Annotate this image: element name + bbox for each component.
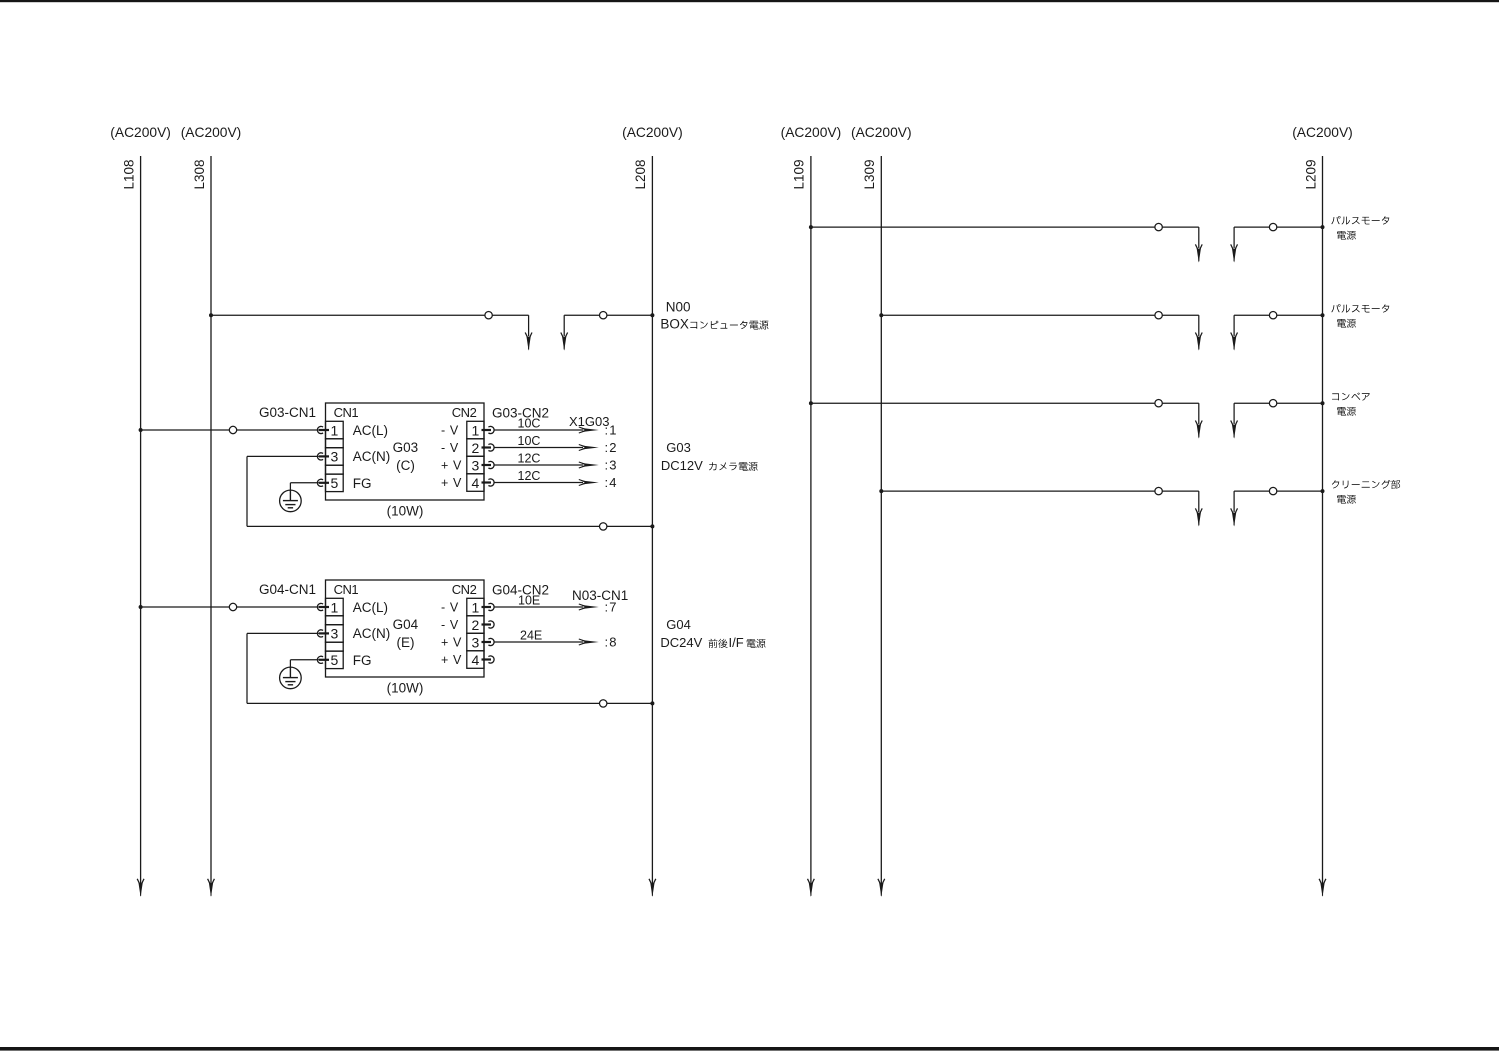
connector terminal circle [600,312,607,319]
svg-text:CN1: CN1 [334,405,359,420]
svg-text:G04: G04 [666,617,691,632]
pin 1 of G04-CN2 [441,599,494,615]
connector G04-CN1 pin column [326,598,344,668]
label G03-CN1 [259,405,316,420]
svg-text::2: :2 [605,440,618,455]
svg-text:L308: L308 [192,159,207,189]
svg-text:CN1: CN1 [334,582,359,597]
svg-text:2: 2 [472,440,480,456]
power rail L108 (AC200V) [110,125,171,897]
wire N00 BOX row (L308 to L208) [209,312,654,351]
svg-text:1: 1 [472,422,480,438]
junction dot on right rail [1321,401,1325,405]
node junction on L208 at G03 [650,524,654,528]
net label パルスモータ電源 [1331,304,1389,328]
wire パルスモータ row (L109 to L209) [809,223,1325,262]
wire drop with arrow (cable continues) [1198,315,1200,336]
svg-text:N00: N00 [666,299,691,314]
pin 3 of G03-CN2 [441,457,494,473]
net label クリーニング部電源 [1332,480,1400,504]
wire segment right [564,314,652,316]
power supply unit G04 body [326,580,485,696]
ground protective-earth symbol at G04 [280,660,319,689]
connector terminal circle [1269,223,1276,230]
connector terminal circle [1269,312,1276,319]
svg-text:(AC200V): (AC200V) [1292,125,1353,140]
pin 3 of G04-CN1 [317,626,338,642]
svg-text:(AC200V): (AC200V) [110,125,171,140]
wire segment right [1234,226,1322,228]
svg-text:FG: FG [353,476,372,491]
svg-text::4: :4 [605,475,618,490]
svg-text:1: 1 [331,599,339,615]
svg-text:N03-CN1: N03-CN1 [572,588,628,603]
svg-text:+ V: + V [441,653,462,667]
connector G03-CN2 pin column [467,421,484,491]
svg-text:(10W): (10W) [387,504,424,519]
wire drop with arrow (cable continues) [563,315,565,336]
pin 2 of G03-CN2 [441,440,494,456]
border frame bottom bar [0,1047,1499,1051]
wire G04-CN2 pin3 output 24E [494,629,618,650]
svg-text:AC(L): AC(L) [353,423,388,438]
connector terminal circle [1269,400,1276,407]
power rail L308 (AC200V) [181,125,242,897]
svg-text:3: 3 [331,626,339,642]
wire drop with arrow (cable continues) [1233,491,1235,512]
svg-text:FG: FG [353,653,372,668]
svg-text:BOX: BOX [660,317,689,332]
svg-text:L208: L208 [633,159,648,189]
pin 1 of G04-CN1 [317,599,338,615]
wire segment right [1234,490,1322,492]
wire drop with arrow (cable continues) [1198,403,1200,424]
svg-text:I/F: I/F [729,635,744,650]
wire drop with arrow (cable continues) [1198,491,1200,512]
svg-text:CN2: CN2 [452,405,477,420]
connector terminal circle [1155,223,1162,230]
wire クリーニング部 row (L309 to L209) [879,487,1324,526]
svg-text:1: 1 [472,599,480,615]
label G03-CN2 [492,406,549,421]
connector terminal circle [1155,487,1162,494]
svg-text:X1G03: X1G03 [569,414,609,429]
svg-text:(AC200V): (AC200V) [851,125,912,140]
svg-text:AC(N): AC(N) [353,626,391,641]
svg-text:5: 5 [331,652,339,668]
wire segment left [811,226,1199,228]
wire G03 pin1 to L108 [141,426,319,433]
svg-text:AC(L): AC(L) [353,600,388,615]
svg-text:(C): (C) [396,458,415,473]
node junction on L108 at G03 [139,428,143,432]
svg-text:- V: - V [441,601,459,615]
svg-text:(AC200V): (AC200V) [622,125,683,140]
junction dot on right rail [650,313,654,317]
svg-text:CN2: CN2 [452,582,477,597]
pin 1 of G03-CN1 [317,422,338,438]
connector G03-CN1 pin column [326,421,344,491]
wire segment left [881,490,1199,492]
junction dot on left rail [809,225,813,229]
svg-text:3: 3 [331,449,339,465]
svg-text:10E: 10E [518,594,540,608]
svg-text:G04: G04 [393,617,419,632]
pin 1 of G03-CN2 [441,422,494,438]
power rail L109 (AC200V) [781,125,842,897]
wire G04 pin3 to L208 (AC neutral loop) [247,633,652,707]
connector terminal circle [1269,487,1276,494]
wire drop with arrow (cable continues) [1233,403,1235,424]
svg-text::3: :3 [605,457,618,472]
wire G04-CN2 pin1 output 10E [494,594,618,615]
svg-text:(E): (E) [397,635,415,650]
wire drop with arrow (cable continues) [1198,227,1200,248]
net label BOXコンピュータ電源 [660,317,768,332]
svg-text:DC12V: DC12V [661,458,703,473]
svg-text:+ V: + V [441,476,462,490]
svg-text:- V: - V [441,424,459,438]
node junction on L208 at G04 [650,701,654,705]
connector terminal circle [485,312,492,319]
wire segment left [211,314,529,316]
svg-text:G03-CN1: G03-CN1 [259,405,316,420]
svg-text:12C: 12C [518,452,541,466]
junction dot on right rail [1321,225,1325,229]
svg-text:DC24V: DC24V [660,635,702,650]
wire G03-CN2 pin1 output 10C [494,417,618,438]
svg-text:5: 5 [331,475,339,491]
svg-text:- V: - V [441,618,459,632]
svg-text:12C: 12C [518,469,541,483]
svg-text:L209: L209 [1303,159,1318,189]
junction dot on left rail [879,313,883,317]
wire segment left [811,402,1199,404]
svg-text:1: 1 [331,422,339,438]
wire G03-CN2 pin4 output 12C [494,469,618,490]
svg-text:(10W): (10W) [387,681,424,696]
connector G04-CN2 pin column [467,598,484,668]
svg-text:(AC200V): (AC200V) [781,125,842,140]
pin 3 of G04-CN2 [441,634,494,650]
svg-text:3: 3 [472,457,480,473]
wire segment right [1234,402,1322,404]
svg-text:(AC200V): (AC200V) [181,125,242,140]
power rail L309 (AC200V) [851,125,912,897]
power rail L209 (AC200V) [1292,125,1353,897]
svg-text:- V: - V [441,441,459,455]
net label コンベア電源 [1332,392,1370,415]
label G03 DC12V カメラ電源 [661,440,758,473]
wire drop with arrow (cable continues) [1233,315,1235,336]
node N00 label [666,299,691,314]
power supply unit G03 body [326,403,485,519]
ground protective-earth symbol at G03 [280,483,319,512]
wire segment left [881,314,1199,316]
wire drop with arrow (cable continues) [528,315,530,336]
junction dot on left rail [879,489,883,493]
svg-text:4: 4 [472,652,480,668]
junction dot on left rail [209,313,213,317]
connector terminal circle [1155,312,1162,319]
node junction on L108 at G04 [139,605,143,609]
svg-text:4: 4 [472,475,480,491]
wire segment right [1234,314,1322,316]
wire G03-CN2 pin2 output 10C [494,434,618,455]
label G04-CN1 [259,582,316,597]
pin 5 of G04-CN1 [317,652,338,668]
svg-text:G04-CN1: G04-CN1 [259,582,316,597]
svg-text:3: 3 [472,634,480,650]
wire G03-CN2 pin3 output 12C [494,452,618,473]
svg-text:24E: 24E [520,629,542,643]
label G04 DC24V 前後I/F電源 [660,617,765,650]
pin 5 of G03-CN1 [317,475,338,491]
pin 4 of G04-CN2 [441,652,494,668]
connector terminal circle [1155,400,1162,407]
svg-text:2: 2 [472,617,480,633]
svg-text:G03: G03 [393,440,419,455]
wire コンベア row (L109 to L209) [809,400,1325,439]
border frame top bar [0,0,1499,2]
svg-text::8: :8 [605,634,618,649]
svg-text:+ V: + V [441,636,462,650]
junction dot on right rail [1321,313,1325,317]
svg-text:AC(N): AC(N) [353,449,391,464]
svg-text:G03: G03 [666,440,691,455]
svg-text:+ V: + V [441,459,462,473]
svg-text:L109: L109 [792,159,807,189]
svg-text:L108: L108 [121,159,136,189]
junction dot on left rail [809,401,813,405]
svg-text:L309: L309 [862,159,877,189]
wire G04 pin1 to L108 [141,603,319,610]
wire パルスモータ row (L309 to L209) [879,312,1324,351]
wire G03 pin3 to L208 (AC neutral loop) [247,456,652,530]
net label パルスモータ電源 [1331,216,1389,240]
pin 3 of G03-CN1 [317,449,338,465]
pin 2 of G04-CN2 [441,617,494,633]
pin 4 of G03-CN2 [441,475,494,491]
label G04-CN2 [492,583,549,598]
wire drop with arrow (cable continues) [1233,227,1235,248]
svg-text:10C: 10C [518,417,541,431]
power rail L208 (AC200V) [622,125,683,897]
svg-text:10C: 10C [518,434,541,448]
junction dot on right rail [1321,489,1325,493]
